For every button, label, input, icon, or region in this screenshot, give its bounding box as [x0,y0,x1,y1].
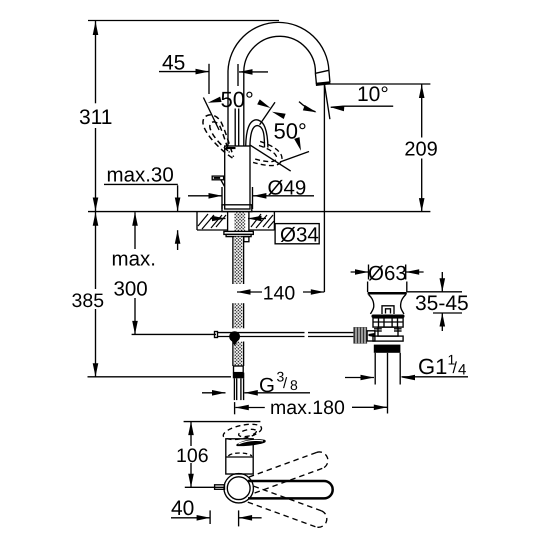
svg-text:106: 106 [176,445,209,467]
svg-text:209: 209 [404,139,437,161]
svg-text:50°: 50° [274,119,307,144]
svg-text:40: 40 [171,497,194,520]
svg-text:10°: 10° [357,83,389,106]
svg-text:311: 311 [79,106,112,129]
svg-text:/: / [453,360,458,377]
svg-text:max.: max. [112,248,156,271]
svg-text:300: 300 [114,278,148,301]
svg-text:G: G [259,374,275,397]
svg-text:Ø63: Ø63 [368,262,407,285]
svg-text:35-45: 35-45 [415,292,469,315]
svg-text:385: 385 [72,290,105,312]
svg-text:50°: 50° [221,87,254,112]
svg-text:140: 140 [263,283,296,305]
svg-text:8: 8 [290,377,298,393]
svg-text:Ø34: Ø34 [280,224,319,247]
svg-text:/: / [283,375,288,392]
svg-text:G1: G1 [418,354,447,379]
svg-text:45: 45 [162,52,185,75]
svg-text:max.30: max.30 [107,163,174,186]
svg-text:Ø49: Ø49 [268,177,307,200]
svg-text:4: 4 [458,362,466,379]
svg-text:max.180: max.180 [270,397,345,419]
